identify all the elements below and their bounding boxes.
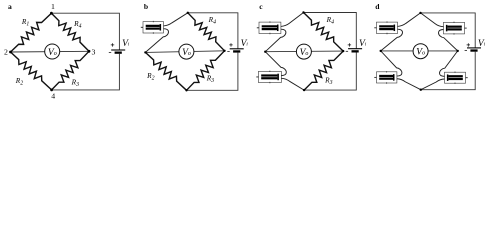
svg-text:2: 2 <box>4 48 8 57</box>
svg-text:3: 3 <box>91 48 95 57</box>
svg-text:1: 1 <box>51 2 55 11</box>
svg-text:b: b <box>144 2 148 11</box>
svg-text:4: 4 <box>51 92 55 101</box>
svg-text:a: a <box>8 2 12 11</box>
